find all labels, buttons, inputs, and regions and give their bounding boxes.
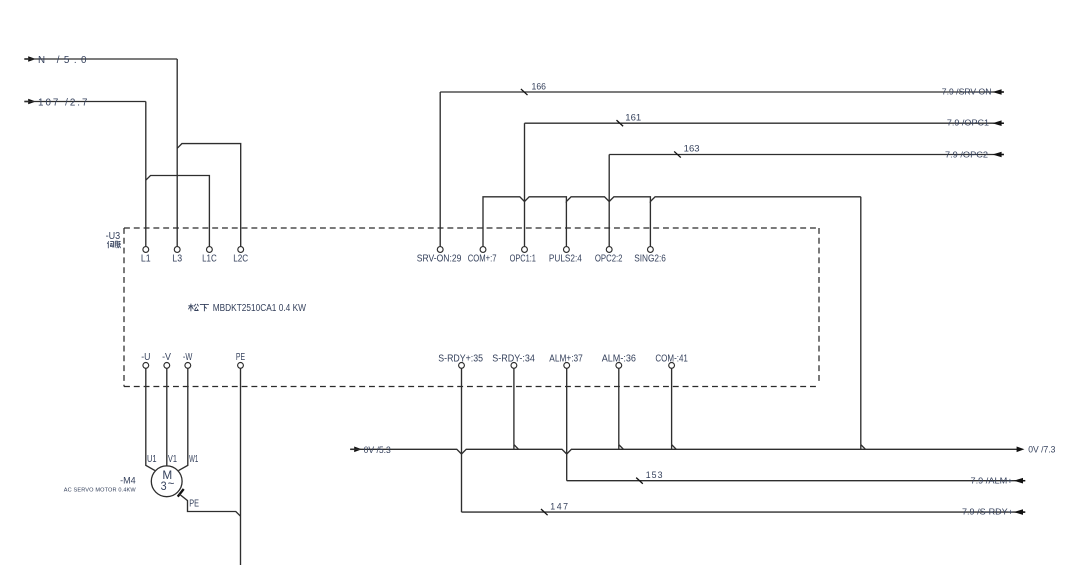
wire SING2 drop [649, 202, 651, 247]
label 伺服 (servo) [107, 241, 121, 248]
wire N horizontal [25, 58, 178, 60]
wire branch to L2C [177, 144, 241, 247]
wire motor PE to PE column [179, 494, 240, 516]
wire PE vertical [240, 368, 242, 565]
svg-text:147: 147 [550, 502, 568, 512]
dashed enclosure box of servo drive -U3 [124, 227, 819, 229]
svg-text:-U3: -U3 [106, 231, 121, 242]
wire S-RDY+ vertical [461, 368, 463, 512]
wire 107 vertical to L1 [145, 102, 147, 247]
svg-text:L1: L1 [141, 253, 151, 264]
wire S-RDY- vertical [513, 368, 515, 444]
wire U to motor [146, 368, 155, 470]
terminal SING2:6 [648, 247, 654, 253]
terminal -U [143, 363, 149, 369]
svg-text:3: 3 [161, 479, 167, 493]
arrow to /SRV-ON [992, 89, 1001, 95]
wire branch to L1C [146, 176, 210, 247]
svg-text:MBDKT2510CA1 0.4 KW: MBDKT2510CA1 0.4 KW [213, 303, 307, 314]
svg-text:L1C: L1C [202, 253, 217, 264]
svg-text:-M4: -M4 [120, 476, 136, 486]
svg-text:7.9 /SRV-ON: 7.9 /SRV-ON [942, 87, 992, 97]
svg-text:153: 153 [646, 470, 663, 480]
terminal ALM+:37 [564, 363, 570, 369]
svg-text:U1: U1 [147, 454, 157, 465]
wire number 166 [521, 89, 528, 95]
svg-text:W1: W1 [189, 454, 198, 465]
joint diagonal S-RDY- [514, 445, 519, 450]
wire right vertical to 0V [860, 197, 862, 445]
svg-text:7.9 /OPC1: 7.9 /OPC1 [947, 118, 990, 128]
arrow to /S-RDY+ [1014, 509, 1023, 515]
svg-text:L3: L3 [172, 253, 182, 264]
wire number 153 [636, 478, 643, 484]
terminal L3 [174, 247, 180, 253]
svg-text:-W: -W [183, 352, 193, 363]
svg-text:V1: V1 [168, 454, 177, 465]
terminal L1 [143, 247, 149, 253]
joint diagonal ALM- [619, 445, 624, 450]
arrow 0V to right [1017, 447, 1025, 453]
arrow to /ALM+ [1014, 478, 1023, 484]
svg-text:7.9 /OPC2: 7.9 /OPC2 [945, 149, 988, 159]
svg-text:7.9 /S-RDY+: 7.9 /S-RDY+ [962, 507, 1013, 517]
terminal S-RDY+:35 [459, 363, 465, 369]
wire N vertical to L3 [176, 59, 178, 247]
wire ALM- vertical [618, 368, 620, 444]
wire V to motor [166, 368, 168, 466]
svg-text:SRV-ON:29: SRV-ON:29 [417, 253, 462, 264]
wire 161 OPC1 [524, 123, 526, 246]
motor PE tick [178, 489, 184, 497]
arrow 107 feeder [24, 101, 28, 103]
terminal PULS2:4 [564, 247, 570, 253]
svg-text:L2C: L2C [233, 253, 248, 264]
svg-text:PE: PE [236, 352, 246, 363]
terminal SRV-ON:29 [437, 247, 443, 253]
svg-text:OPC2:2: OPC2:2 [595, 253, 623, 264]
svg-text:0V /5.3: 0V /5.3 [364, 445, 391, 455]
svg-text:SING2:6: SING2:6 [634, 253, 666, 264]
svg-text:AC SERVO MOTOR 0.4KW: AC SERVO MOTOR 0.4KW [64, 488, 137, 494]
arrow N feeder [24, 58, 28, 60]
motor M4 circle [151, 466, 182, 497]
svg-text:~: ~ [168, 476, 175, 490]
wire PULS2 drop [565, 202, 567, 247]
svg-text:COM+:7: COM+:7 [468, 253, 497, 264]
wire 147 S-RDY+ [462, 511, 1025, 513]
arrow 0V feeder [350, 448, 354, 450]
arrow to /OPC1 [992, 120, 1001, 126]
label 松下 (Panasonic) glyphs [188, 304, 209, 312]
arrow to /OPC2 [992, 152, 1001, 158]
svg-text:166: 166 [532, 82, 547, 92]
terminal -W [185, 363, 191, 369]
wire 107 horizontal [25, 101, 146, 103]
wire 153 ALM+ [567, 480, 1025, 482]
terminal OPC2:2 [606, 247, 612, 253]
svg-text:OPC1:1: OPC1:1 [510, 253, 536, 264]
wire W to motor [179, 368, 188, 470]
joint diagonal COM- [672, 445, 677, 450]
svg-text:PE: PE [189, 498, 199, 509]
terminal L2C [238, 247, 244, 253]
terminal ALM-:36 [616, 363, 622, 369]
top bus with joints [483, 197, 861, 247]
svg-text:-U: -U [141, 352, 150, 363]
svg-text:163: 163 [684, 144, 700, 154]
joint diagonal right vertical [861, 445, 866, 450]
terminal COM+:7 [480, 247, 486, 253]
svg-text:-V: -V [162, 352, 171, 363]
wire 166 SRV-ON [439, 92, 441, 247]
terminal PE [238, 363, 244, 369]
wire number 147 [541, 509, 548, 515]
wire COM- vertical [671, 368, 673, 444]
svg-text:7.9 /ALM+: 7.9 /ALM+ [971, 476, 1013, 486]
terminal OPC1:1 [522, 247, 528, 253]
svg-text:161: 161 [625, 112, 641, 122]
terminal L1C [207, 247, 213, 253]
0V bus with joints [350, 445, 1017, 454]
wire number 161 [616, 120, 623, 126]
terminal COM-:41 [669, 363, 675, 369]
svg-text:0V /7.3: 0V /7.3 [1028, 444, 1055, 454]
wire number 163 [674, 151, 681, 157]
wire ALM+ vertical [566, 368, 568, 480]
svg-text:PULS2:4: PULS2:4 [549, 253, 582, 264]
terminal S-RDY-:34 [511, 363, 517, 369]
wire 163 OPC2 [608, 155, 610, 247]
terminal -V [164, 363, 170, 369]
